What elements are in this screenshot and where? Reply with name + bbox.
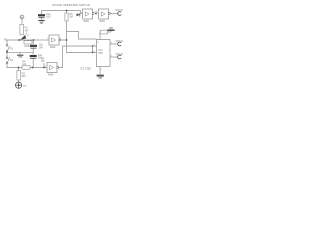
ground under 555 <box>97 75 104 79</box>
svg-text:3: 3 <box>97 12 98 14</box>
wire 555 pin3 to connector <box>110 43 118 45</box>
svg-text:1: 1 <box>45 66 46 68</box>
svg-text:2: 2 <box>94 12 95 14</box>
svg-text:1M: 1M <box>69 16 72 19</box>
svg-text:SOUND OPERATED SWITCH: SOUND OPERATED SWITCH <box>52 3 90 7</box>
resistor R2 horizontal <box>24 41 32 49</box>
wire 555 lower right pin to connector <box>110 56 118 58</box>
ground under C1 <box>38 20 44 24</box>
wire gate U1b input <box>34 39 50 41</box>
pin number marks <box>45 12 110 68</box>
wire cap chain <box>32 40 34 68</box>
wire gate U1b output <box>60 39 67 41</box>
svg-text:SPKR: SPKR <box>116 53 124 56</box>
gate U1c <box>83 9 95 23</box>
svg-text:MIC: MIC <box>23 86 27 88</box>
IC2 555 box <box>94 40 114 71</box>
wire resistor R5 top stub <box>66 11 68 14</box>
svg-text:SPKR: SPKR <box>116 40 124 43</box>
svg-text:4069: 4069 <box>83 20 89 23</box>
svg-text:4069: 4069 <box>50 46 56 49</box>
wire branch to 555 pin top <box>67 32 97 40</box>
wire mic line right of R4 <box>30 67 47 69</box>
junction dots <box>6 10 97 69</box>
capacitor C2 <box>30 43 43 50</box>
svg-text:1M: 1M <box>41 60 44 63</box>
resistor R6 top right <box>100 30 107 34</box>
svg-text:4k7: 4k7 <box>25 29 30 32</box>
svg-text:2k2: 2k2 <box>22 75 27 78</box>
connector pin3 output <box>116 40 124 46</box>
switch S2 <box>6 57 13 64</box>
svg-text:2: 2 <box>58 66 59 68</box>
gate U1d <box>99 9 111 23</box>
switch S1 <box>6 44 13 52</box>
LED D2 <box>20 33 29 40</box>
microphone MIC1 <box>16 82 28 88</box>
svg-text:3: 3 <box>47 38 48 40</box>
svg-text:16V: 16V <box>39 45 44 49</box>
wire node to 555 pin6 <box>67 40 97 53</box>
svg-text:4: 4 <box>110 12 111 14</box>
wire tie pins 2-6 <box>92 46 94 53</box>
wire top rail <box>42 10 81 12</box>
svg-text:IC2 7555: IC2 7555 <box>80 67 91 71</box>
wire S1/S2 middle node <box>7 52 33 57</box>
wire gate U1d output to connector <box>109 13 117 15</box>
svg-text:4069: 4069 <box>99 20 105 23</box>
wire 555 top pin to R6 <box>99 32 101 40</box>
connector lower output <box>116 53 124 59</box>
capacitor C1 <box>38 12 51 19</box>
resistor R4 horizontal mic feed <box>22 61 30 70</box>
wire gate U1a output to 555 pin2 <box>58 46 97 68</box>
wire left rail at y40 <box>5 38 34 40</box>
resistor R5 vertical top <box>65 13 73 21</box>
capacitor C3 <box>30 53 43 60</box>
diode D1 <box>77 13 80 16</box>
svg-text:16V: 16V <box>46 15 51 19</box>
wire 555 bottom pin to ground <box>99 67 101 75</box>
wire R6 right to ground <box>108 31 112 32</box>
wire S2 bottom down and mic line <box>7 64 22 68</box>
resistor R1 vertical left <box>20 24 29 35</box>
wire feedback stub at gate U1a input <box>43 63 45 68</box>
svg-text:4069: 4069 <box>48 74 54 77</box>
gate U1a <box>47 63 59 77</box>
wire ground stub under S wire <box>19 52 21 54</box>
resistor R3 vertical mic bias <box>17 71 26 80</box>
ground right of R6 <box>107 28 114 31</box>
gate U1b <box>49 35 61 49</box>
wire cap C1 stubs <box>41 11 43 20</box>
wire mic branch <box>18 68 20 83</box>
connector output top right <box>115 9 123 15</box>
wire resistor R5 bottom to node <box>66 21 68 40</box>
svg-text:100k: 100k <box>24 45 30 48</box>
wire stub above junction dot <box>95 11 97 14</box>
ground under S wire <box>17 55 23 58</box>
svg-text:555: 555 <box>99 52 104 55</box>
power terminal circle <box>20 15 24 24</box>
svg-text:1: 1 <box>81 12 82 14</box>
wire rail drop to gate U1c input <box>81 11 83 14</box>
wire corner down to S1 <box>6 40 8 44</box>
svg-text:4: 4 <box>60 38 61 40</box>
